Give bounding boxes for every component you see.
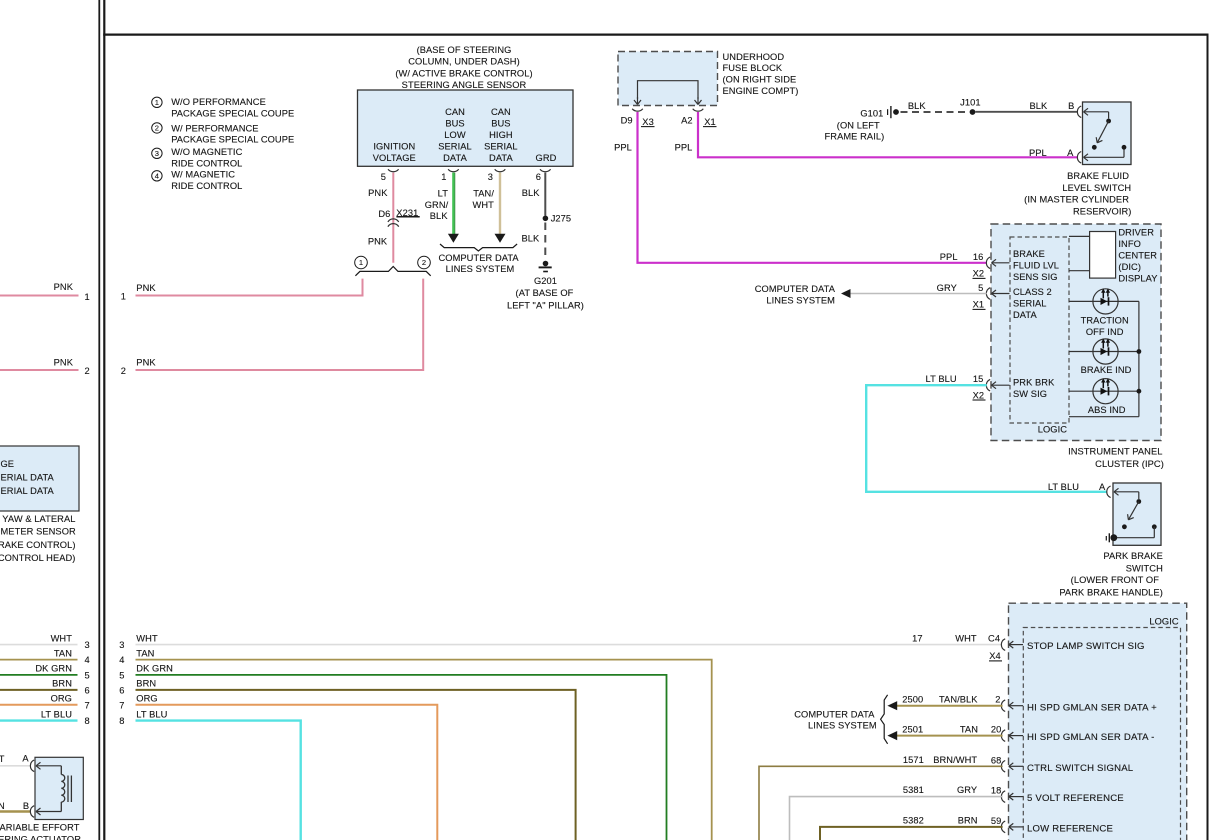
svg-text:4: 4: [119, 655, 124, 665]
svg-text:PNK: PNK: [136, 283, 156, 293]
svg-text:A: A: [1099, 482, 1106, 492]
svg-text:X1: X1: [704, 117, 716, 127]
svg-text:20: 20: [991, 725, 1002, 735]
svg-text:SW SIG: SW SIG: [1013, 389, 1047, 399]
svg-text:16: 16: [973, 252, 984, 262]
svg-text:HI SPD GMLAN SER DATA -: HI SPD GMLAN SER DATA -: [1027, 732, 1154, 743]
svg-text:GRN/: GRN/: [425, 200, 449, 210]
svg-text:STOP LAMP SWITCH SIG: STOP LAMP SWITCH SIG: [1027, 641, 1145, 652]
svg-text:FLUID LVL: FLUID LVL: [1013, 260, 1059, 270]
svg-text:1571: 1571: [903, 755, 924, 765]
svg-text:2: 2: [155, 124, 159, 133]
svg-text:PPL: PPL: [614, 143, 632, 153]
svg-text:LEFT "A" PILLAR): LEFT "A" PILLAR): [507, 300, 584, 310]
svg-text:LT BLU: LT BLU: [41, 709, 72, 719]
svg-text:RIDE CONTROL: RIDE CONTROL: [171, 158, 242, 168]
svg-text:UNDERHOOD: UNDERHOOD: [723, 52, 785, 62]
svg-text:LT: LT: [438, 189, 449, 199]
svg-text:4: 4: [85, 655, 90, 665]
svg-text:A: A: [22, 753, 29, 763]
svg-text:3: 3: [119, 640, 124, 650]
svg-text:6: 6: [119, 686, 124, 696]
svg-text:7: 7: [85, 700, 90, 710]
svg-text:STEERING ANGLE SENSOR: STEERING ANGLE SENSOR: [402, 80, 527, 90]
svg-text:FUSE BLOCK: FUSE BLOCK: [723, 63, 783, 73]
svg-text:CAN: CAN: [491, 107, 511, 117]
svg-text:TAN: TAN: [960, 724, 978, 734]
svg-text:TAN: TAN: [136, 648, 154, 658]
svg-text:VOLTAGE: VOLTAGE: [373, 153, 416, 163]
svg-text:(IN MASTER CYLINDER: (IN MASTER CYLINDER: [1024, 195, 1129, 205]
svg-text:LOW REFERENCE: LOW REFERENCE: [1027, 824, 1113, 835]
svg-text:6: 6: [85, 686, 90, 696]
svg-text:BLK: BLK: [522, 188, 541, 198]
svg-text:IGNITION: IGNITION: [373, 141, 415, 151]
svg-text:CONTROL HEAD): CONTROL HEAD): [0, 553, 76, 563]
svg-text:BRN: BRN: [958, 816, 978, 826]
svg-text:SWITCH: SWITCH: [1126, 564, 1163, 574]
svg-text:LT BLU: LT BLU: [136, 709, 167, 719]
svg-text:PRK BRK: PRK BRK: [1013, 378, 1055, 388]
svg-text:T: T: [0, 754, 5, 764]
svg-text:LT BLU: LT BLU: [1048, 482, 1079, 492]
svg-text:(BASE OF STEERING: (BASE OF STEERING: [417, 45, 512, 55]
svg-text:PPL: PPL: [1029, 148, 1047, 158]
svg-text:B: B: [1068, 101, 1074, 111]
svg-text:B: B: [23, 801, 29, 811]
svg-text:VARIABLE EFFORT: VARIABLE EFFORT: [0, 822, 80, 832]
svg-text:1: 1: [359, 258, 363, 267]
svg-text:CAN: CAN: [445, 107, 465, 117]
svg-text:PPL: PPL: [940, 252, 958, 262]
svg-text:DATA: DATA: [443, 153, 467, 163]
svg-text:ORG: ORG: [136, 694, 157, 704]
svg-text:PACKAGE SPECIAL COUPE: PACKAGE SPECIAL COUPE: [171, 108, 294, 118]
svg-text:PNK: PNK: [136, 358, 156, 368]
svg-text:J101: J101: [960, 98, 980, 108]
svg-text:RIDE CONTROL: RIDE CONTROL: [171, 181, 242, 191]
svg-text:1: 1: [441, 172, 446, 182]
svg-text:RAKE CONTROL): RAKE CONTROL): [0, 540, 76, 550]
svg-text:HIGH: HIGH: [489, 130, 513, 140]
svg-text:WHT: WHT: [472, 200, 494, 210]
svg-text:(W/ ACTIVE BRAKE CONTROL): (W/ ACTIVE BRAKE CONTROL): [395, 68, 532, 78]
svg-text:COMPUTER DATA: COMPUTER DATA: [794, 710, 875, 720]
svg-text:CLUSTER (IPC): CLUSTER (IPC): [1095, 459, 1164, 469]
svg-text:SENS SIG: SENS SIG: [1013, 272, 1058, 282]
svg-text:5: 5: [85, 671, 90, 681]
svg-text:2: 2: [995, 695, 1000, 705]
svg-text:W/ MAGNETIC: W/ MAGNETIC: [171, 170, 235, 180]
svg-text:DISPLAY: DISPLAY: [1118, 273, 1157, 283]
svg-text:CENTER: CENTER: [1118, 250, 1157, 260]
svg-text:1: 1: [155, 98, 159, 107]
svg-text:COMPUTER DATA: COMPUTER DATA: [438, 253, 519, 263]
svg-text:ORG: ORG: [51, 694, 72, 704]
svg-text:WHT: WHT: [955, 633, 977, 643]
svg-text:GE: GE: [1, 459, 15, 469]
svg-text:5: 5: [978, 283, 983, 293]
svg-text:X4: X4: [989, 651, 1001, 661]
svg-text:PACKAGE SPECIAL COUPE: PACKAGE SPECIAL COUPE: [171, 134, 294, 144]
svg-text:D6: D6: [378, 209, 390, 219]
svg-text:LEVEL SWITCH: LEVEL SWITCH: [1062, 183, 1131, 193]
svg-text:OFF IND: OFF IND: [1086, 327, 1124, 337]
svg-text:6: 6: [536, 172, 541, 182]
svg-text:A2: A2: [681, 116, 693, 126]
svg-text:BRN: BRN: [136, 679, 156, 689]
svg-text:PNK: PNK: [54, 282, 74, 292]
svg-text:WHT: WHT: [51, 633, 73, 643]
svg-text:1: 1: [85, 292, 90, 302]
svg-text:CLASS 2: CLASS 2: [1013, 287, 1052, 297]
svg-text:TEERING ACTUATOR: TEERING ACTUATOR: [0, 834, 81, 840]
svg-text:HI SPD GMLAN SER DATA +: HI SPD GMLAN SER DATA +: [1027, 702, 1157, 713]
svg-text:W/O MAGNETIC: W/O MAGNETIC: [171, 147, 242, 157]
svg-text:ENGINE COMPT): ENGINE COMPT): [723, 86, 799, 96]
svg-text:1: 1: [121, 292, 126, 302]
svg-text:GRD: GRD: [536, 153, 557, 163]
svg-text:ABS IND: ABS IND: [1088, 405, 1126, 415]
svg-text:5381: 5381: [903, 785, 924, 795]
svg-text:PPL: PPL: [675, 143, 693, 153]
svg-text:FRAME RAIL): FRAME RAIL): [825, 132, 885, 142]
svg-text:(ON LEFT: (ON LEFT: [837, 120, 880, 130]
svg-text:BRN: BRN: [52, 679, 72, 689]
svg-text:DATA: DATA: [489, 153, 513, 163]
svg-text:X2: X2: [973, 390, 985, 400]
svg-text:ERIAL DATA: ERIAL DATA: [1, 486, 55, 496]
svg-text:5: 5: [119, 671, 124, 681]
svg-text:SERIAL: SERIAL: [438, 141, 472, 151]
svg-text:INFO: INFO: [1118, 239, 1141, 249]
svg-text:INSTRUMENT PANEL: INSTRUMENT PANEL: [1068, 447, 1162, 457]
svg-text:PNK: PNK: [368, 237, 388, 247]
svg-text:G201: G201: [534, 276, 557, 286]
svg-text:8: 8: [85, 716, 90, 726]
svg-text:DK GRN: DK GRN: [35, 664, 72, 674]
svg-text:BRAKE FLUID: BRAKE FLUID: [1067, 171, 1129, 181]
svg-text:DRIVER: DRIVER: [1118, 228, 1154, 238]
svg-text:X1: X1: [973, 300, 985, 310]
svg-text:TAN/: TAN/: [473, 189, 494, 199]
svg-text:W/ PERFORMANCE: W/ PERFORMANCE: [171, 124, 258, 134]
svg-text:A: A: [1067, 148, 1074, 158]
svg-text:BLK: BLK: [1029, 101, 1048, 111]
svg-text:WHT: WHT: [136, 633, 158, 643]
svg-text:W/O PERFORMANCE: W/O PERFORMANCE: [171, 97, 266, 107]
svg-text:2: 2: [422, 258, 426, 267]
svg-text:TAN: TAN: [54, 648, 72, 658]
svg-text:OMETER SENSOR: OMETER SENSOR: [0, 527, 76, 537]
svg-text:5382: 5382: [903, 816, 924, 826]
svg-text:LOW: LOW: [444, 130, 466, 140]
svg-text:GRY: GRY: [937, 283, 957, 293]
svg-text:BLK: BLK: [430, 211, 449, 221]
svg-text:PARK BRAKE: PARK BRAKE: [1103, 551, 1163, 561]
svg-text:2501: 2501: [902, 724, 923, 734]
svg-text:BRAKE: BRAKE: [1013, 249, 1045, 259]
svg-text:DK GRN: DK GRN: [136, 664, 173, 674]
svg-text:5 VOLT REFERENCE: 5 VOLT REFERENCE: [1027, 793, 1124, 804]
svg-text:CTRL SWITCH SIGNAL: CTRL SWITCH SIGNAL: [1027, 763, 1134, 774]
svg-text:LOGIC: LOGIC: [1149, 617, 1179, 627]
svg-text:15: 15: [973, 374, 984, 384]
svg-text:BRN/WHT: BRN/WHT: [933, 755, 977, 765]
svg-text:J275: J275: [551, 214, 571, 224]
svg-text:COLUMN, UNDER DASH): COLUMN, UNDER DASH): [408, 57, 520, 67]
svg-text:SERIAL: SERIAL: [1013, 299, 1047, 309]
svg-text:RESERVOIR): RESERVOIR): [1073, 206, 1132, 216]
svg-text:5: 5: [381, 172, 386, 182]
svg-text:4: 4: [155, 172, 159, 181]
svg-text:2: 2: [85, 366, 90, 376]
svg-text:2: 2: [121, 366, 126, 376]
svg-text:SERIAL: SERIAL: [484, 141, 518, 151]
svg-text:DATA: DATA: [1013, 310, 1037, 320]
svg-text:COMPUTER DATA: COMPUTER DATA: [755, 284, 836, 294]
svg-text:YAW & LATERAL: YAW & LATERAL: [2, 514, 75, 524]
svg-text:BUS: BUS: [491, 119, 510, 129]
svg-text:68: 68: [991, 755, 1002, 765]
svg-text:59: 59: [991, 816, 1002, 826]
svg-text:BRAKE IND: BRAKE IND: [1081, 365, 1132, 375]
svg-text:(DIC): (DIC): [1118, 262, 1141, 272]
svg-text:PNK: PNK: [54, 358, 74, 368]
svg-text:3: 3: [85, 640, 90, 650]
svg-text:GRY: GRY: [957, 785, 977, 795]
svg-text:C4: C4: [988, 633, 1000, 643]
svg-text:7: 7: [119, 700, 124, 710]
svg-text:LINES SYSTEM: LINES SYSTEM: [446, 264, 515, 274]
svg-text:LINES SYSTEM: LINES SYSTEM: [766, 295, 835, 305]
svg-text:ERIAL DATA: ERIAL DATA: [1, 473, 55, 483]
svg-text:18: 18: [991, 786, 1002, 796]
svg-text:TRACTION: TRACTION: [1081, 316, 1129, 326]
svg-text:17: 17: [912, 633, 923, 643]
svg-text:(ON RIGHT SIDE: (ON RIGHT SIDE: [723, 75, 797, 85]
svg-text:LINES SYSTEM: LINES SYSTEM: [808, 720, 877, 730]
svg-text:8: 8: [119, 716, 124, 726]
svg-text:PARK BRAKE HANDLE): PARK BRAKE HANDLE): [1059, 587, 1163, 597]
svg-text:LOGIC: LOGIC: [1038, 424, 1068, 434]
svg-text:D9: D9: [621, 116, 633, 126]
svg-text:3: 3: [155, 149, 159, 158]
svg-text:(AT BASE OF: (AT BASE OF: [516, 288, 574, 298]
svg-text:G101: G101: [860, 109, 883, 119]
svg-text:PNK: PNK: [368, 188, 388, 198]
svg-text:2500: 2500: [902, 694, 923, 704]
svg-text:LT BLU: LT BLU: [926, 374, 957, 384]
svg-text:BUS: BUS: [445, 119, 464, 129]
svg-text:X3: X3: [642, 117, 654, 127]
svg-text:X2: X2: [973, 269, 985, 279]
svg-text:N: N: [0, 801, 5, 811]
svg-text:BLK: BLK: [908, 101, 927, 111]
svg-text:TAN/BLK: TAN/BLK: [939, 694, 978, 704]
svg-text:BLK: BLK: [521, 233, 540, 243]
svg-text:3: 3: [488, 172, 493, 182]
svg-text:(LOWER FRONT OF: (LOWER FRONT OF: [1071, 575, 1160, 585]
